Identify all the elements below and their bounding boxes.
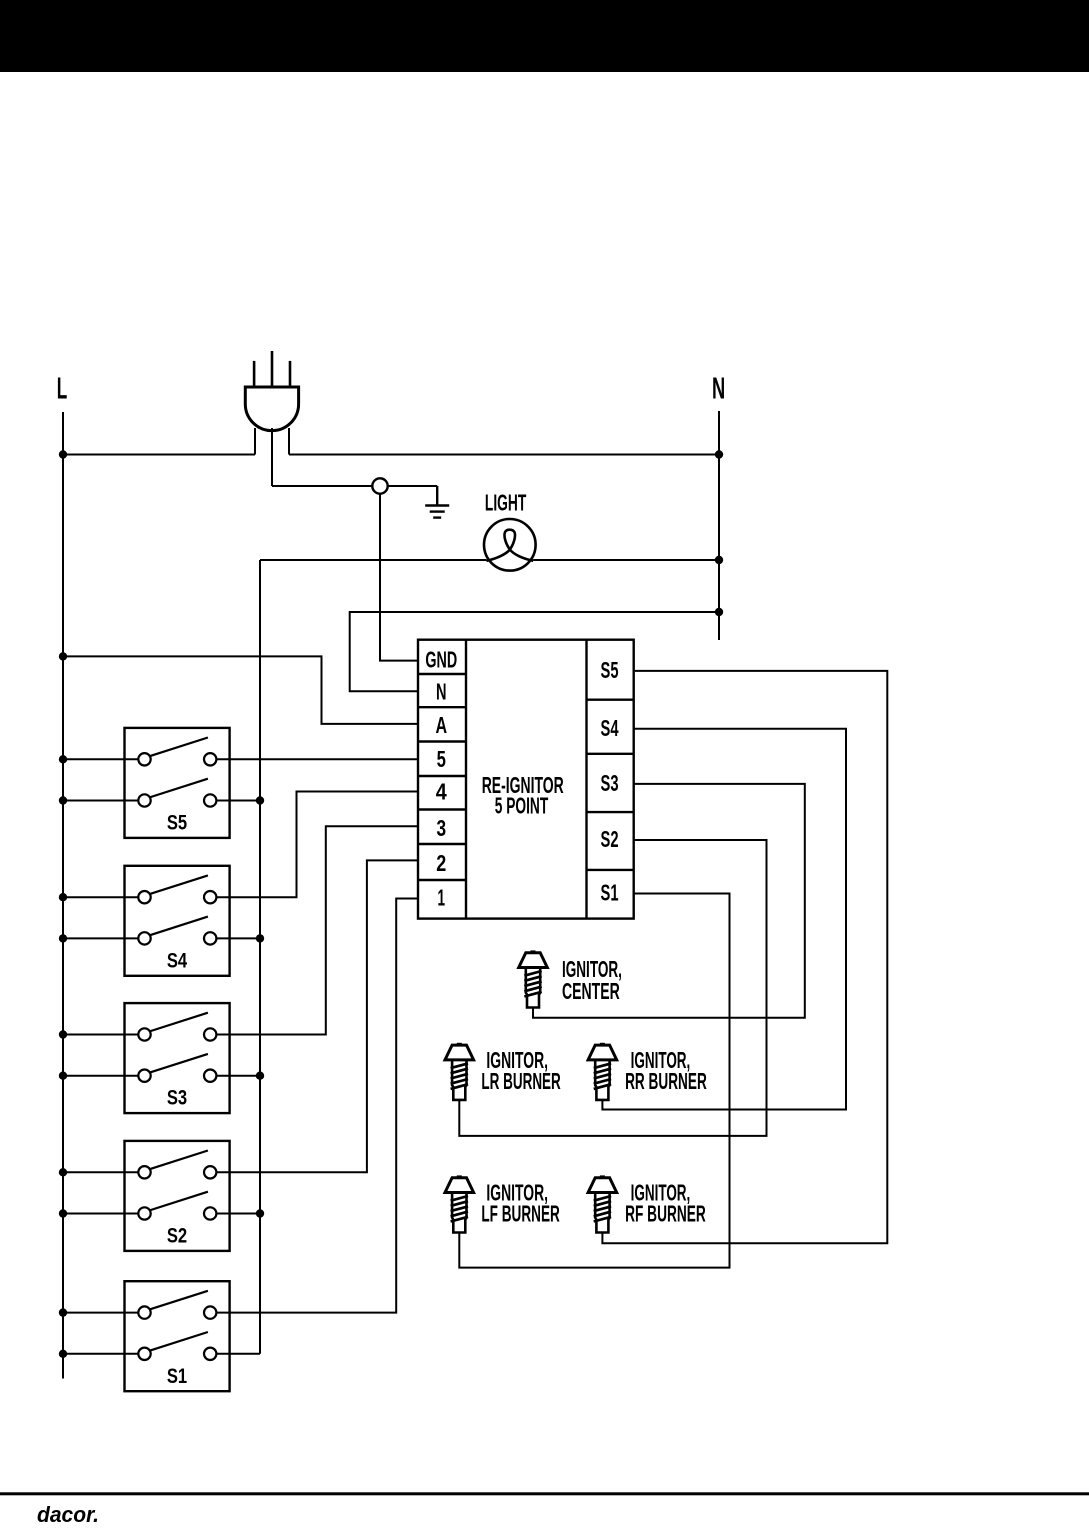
wire S5 upper contact to terminal 5 <box>216 758 418 760</box>
wire light line left (from S5 bus corner) <box>260 559 486 561</box>
junction L / A feed <box>59 652 67 660</box>
svg-text:A: A <box>436 712 448 738</box>
junction L / S4 lower <box>59 934 67 942</box>
junction L / main line <box>59 450 67 458</box>
switch S5 <box>125 728 230 838</box>
wire L to A terminal <box>63 656 418 724</box>
junction L / S2 lower <box>59 1209 67 1217</box>
svg-text:L: L <box>57 370 68 405</box>
wire plug left lead to L line <box>254 428 256 455</box>
svg-text:LF BURNER: LF BURNER <box>481 1201 560 1227</box>
wire connector to GND terminal <box>380 494 418 661</box>
junction L / S3 upper <box>59 1030 67 1038</box>
svg-text:CENTER: CENTER <box>562 978 620 1004</box>
svg-text:5: 5 <box>437 746 446 772</box>
wire L to S4 upper contact <box>63 896 138 898</box>
svg-text:N: N <box>712 371 725 406</box>
lamp LIGHT <box>484 519 536 571</box>
ignitor RF burner <box>588 1175 617 1232</box>
svg-text:S3: S3 <box>601 770 619 796</box>
wire L to S4 lower contact <box>63 937 138 939</box>
svg-text:S5: S5 <box>601 657 619 683</box>
junction L / S1 upper <box>59 1308 67 1316</box>
wire plug right lead to N line <box>288 428 290 455</box>
wire L vertical bus <box>62 412 64 1379</box>
svg-text:3: 3 <box>437 815 447 841</box>
wire S3 output to center ignitor <box>533 784 805 1018</box>
wire L to S1 lower contact <box>63 1353 138 1355</box>
svg-text:S4: S4 <box>601 715 619 741</box>
wire L to S1 upper contact <box>63 1312 138 1314</box>
svg-text:S2: S2 <box>167 1224 187 1248</box>
wire S1 upper contact to terminal 1 <box>216 899 418 1313</box>
junction bus / S5 lower <box>256 796 264 804</box>
junction bus / S4 lower <box>256 934 264 942</box>
wire lamp neutral bus <box>259 560 261 1354</box>
junction L / S2 upper <box>59 1168 67 1176</box>
wire S5 lower contact to lamp bus <box>216 800 260 802</box>
wire S1 output to LF ignitor <box>459 894 729 1268</box>
junction L / S4 upper <box>59 893 67 901</box>
wire S2 output to LR ignitor <box>459 840 766 1136</box>
wire L to S3 upper contact <box>63 1034 138 1036</box>
wire S5 output to RF ignitor <box>602 671 887 1243</box>
ignitor LR burner <box>445 1043 474 1100</box>
svg-text:S1: S1 <box>167 1364 187 1388</box>
svg-text:dacor.: dacor. <box>37 1502 99 1523</box>
svg-text:S3: S3 <box>167 1086 187 1110</box>
junction L / S5 upper <box>59 755 67 763</box>
svg-text:LR BURNER: LR BURNER <box>481 1068 561 1094</box>
wire L to S2 upper contact <box>63 1171 138 1173</box>
ignitor RR burner <box>588 1043 617 1100</box>
wire S2 lower contact to lamp bus <box>216 1213 260 1215</box>
wire plug center lead down <box>271 428 273 486</box>
svg-text:RR BURNER: RR BURNER <box>625 1068 707 1094</box>
svg-text:LIGHT: LIGHT <box>485 489 526 515</box>
svg-text:S2: S2 <box>601 826 619 852</box>
wire plug to N (neutral side) <box>289 454 719 456</box>
junction bus / S2 lower <box>256 1209 264 1217</box>
wire S2 upper contact to terminal 2 <box>216 860 418 1172</box>
switch S2 <box>125 1141 230 1251</box>
wire S4 output to RR ignitor <box>602 729 846 1110</box>
wire plug lead to ground connector <box>272 485 372 487</box>
svg-text:2: 2 <box>436 850 446 876</box>
wire S4 upper contact to terminal 4 <box>216 792 418 898</box>
svg-text:GND: GND <box>425 647 457 673</box>
wire L to S5 upper contact <box>63 758 138 760</box>
junction N / terminal feed <box>715 608 723 616</box>
svg-text:N: N <box>436 678 447 704</box>
svg-text:5 POINT: 5 POINT <box>495 792 549 818</box>
connector terminal (open circle) <box>372 478 387 493</box>
ignitor LF burner <box>445 1175 474 1232</box>
wire N vertical bus <box>718 411 720 640</box>
wire S1 lower contact to lamp bus <box>216 1353 260 1355</box>
svg-text:1: 1 <box>438 884 446 910</box>
junction L / S3 lower <box>59 1072 67 1080</box>
svg-text:S1: S1 <box>601 880 619 906</box>
wire L to S2 lower contact <box>63 1213 138 1215</box>
svg-text:4: 4 <box>436 779 447 805</box>
switch S4 <box>125 866 230 976</box>
wire connector to ground <box>388 485 438 487</box>
junction L / S1 lower <box>59 1350 67 1358</box>
wire L to S3 lower contact <box>63 1075 138 1077</box>
wire L to S5 lower contact <box>63 800 138 802</box>
junction N / main line <box>715 450 723 458</box>
ground <box>425 486 449 518</box>
junction L / S5 lower <box>59 796 67 804</box>
switch S1 <box>125 1281 230 1391</box>
svg-text:S5: S5 <box>167 811 187 835</box>
wire N terminal feed <box>350 612 719 691</box>
wire S3 lower contact to lamp bus <box>216 1075 260 1077</box>
svg-text:RF BURNER: RF BURNER <box>625 1201 706 1227</box>
wire L to plug (line side) <box>63 454 255 456</box>
AC line plug P1 <box>245 351 298 431</box>
junction N / light line <box>715 556 723 564</box>
wire S3 upper contact to terminal 3 <box>216 826 418 1034</box>
ignitor center (spark electrode) <box>519 950 548 1007</box>
wire light to N <box>533 559 719 561</box>
wire S4 lower contact to lamp bus <box>216 937 260 939</box>
re-ignitor module U1 <box>418 640 634 919</box>
switch S3 <box>125 1003 230 1113</box>
svg-text:S4: S4 <box>167 948 187 972</box>
junction bus / S3 lower <box>256 1072 264 1080</box>
